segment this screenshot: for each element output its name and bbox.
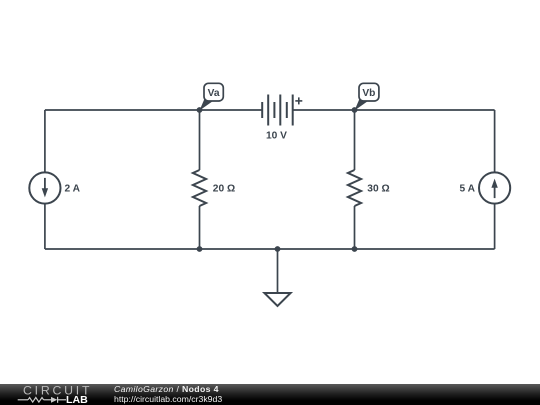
svg-text:10 V: 10 V — [266, 130, 287, 141]
node dot: bottom junction below R1 — [197, 246, 203, 252]
wire: node below R1 to ground node — [200, 248, 278, 250]
label: R1 value 20 ohm — [213, 183, 235, 194]
node dot: Va junction — [197, 107, 203, 113]
label: I1 value 2 A — [65, 183, 81, 194]
svg-text:2 A: 2 A — [65, 183, 81, 194]
svg-text:20 Ω: 20 Ω — [213, 183, 235, 194]
wire: ground node to node below R2 — [278, 248, 355, 250]
wire: battery positive terminal to node Vb — [293, 109, 355, 111]
svg-text:Vb: Vb — [362, 88, 375, 99]
wire: top lead of resistor R1 — [199, 110, 201, 170]
node label Vb (callout) — [355, 83, 379, 110]
current source I1 2A (arrow down) — [29, 172, 60, 203]
wire: right vertical, top corner to current source I2 — [494, 110, 496, 172]
wire: ground lead — [277, 249, 279, 293]
current source I2 5A (arrow up) — [479, 172, 510, 203]
ground symbol — [264, 293, 290, 306]
node label Va (callout) — [200, 83, 224, 110]
node dot: bottom junction below R2 — [352, 246, 358, 252]
svg-text:Va: Va — [208, 88, 220, 99]
label: battery value 10 V — [266, 130, 287, 141]
label: R2 value 30 ohm — [367, 183, 389, 194]
wire: current source I1 to bottom-left corner — [44, 204, 46, 249]
wire: node Va to battery negative terminal — [200, 109, 263, 111]
svg-text:30 Ω: 30 Ω — [367, 183, 389, 194]
wire: bottom lead of resistor R2 — [354, 206, 356, 249]
wire: node Vb to top-right corner — [355, 109, 495, 111]
battery V1 10V — [262, 95, 302, 126]
wire: bottom-left corner to node below R1 — [45, 248, 200, 250]
CircuitLab logo — [0, 384, 100, 405]
wire: top-left horizontal (left source to node Va) — [45, 109, 200, 111]
wire: current source I2 to bottom-right corner — [494, 204, 496, 249]
wire: bottom lead of resistor R1 — [199, 206, 201, 249]
resistor R2 30 ohm — [348, 170, 361, 206]
node dot: Vb junction — [352, 107, 358, 113]
wire: top lead of resistor R2 — [354, 110, 356, 170]
resistor R1 20 ohm — [193, 170, 206, 206]
node dot: ground junction — [275, 246, 281, 252]
label: I2 value 5 A — [460, 183, 476, 194]
wire: node below R2 to bottom-right corner — [355, 248, 495, 250]
svg-text:5 A: 5 A — [460, 183, 476, 194]
svg-text:LAB: LAB — [66, 394, 88, 405]
footer title text — [114, 385, 222, 404]
wire: left vertical, top corner to current source I1 — [44, 110, 46, 172]
footer bar — [0, 384, 540, 405]
